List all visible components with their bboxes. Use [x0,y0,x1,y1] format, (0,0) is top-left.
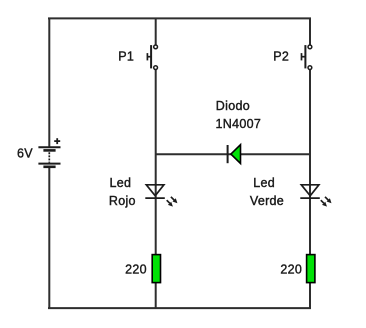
wire middle upper (top rail to P1) [155,18,157,45]
LED D3 (Led Verde) [300,185,328,203]
wire middle main (P1 to resistor R1) [155,70,157,255]
wire bottom rail [48,307,311,309]
wire top rail [48,17,311,19]
svg-text:P2: P2 [273,50,289,64]
LED D2 (Led Rojo) [145,185,174,203]
wire left upper (top rail to battery) [48,18,50,147]
svg-text:220: 220 [280,263,302,277]
wire right lower (resistor R2 to bottom rail) [309,282,311,309]
wire left lower (battery to bottom rail) [48,167,50,309]
diode D1 1N4007 [228,145,241,164]
svg-text:6V: 6V [17,147,33,161]
svg-text:220: 220 [125,263,147,277]
svg-text:Led: Led [110,176,132,190]
svg-text:Led: Led [253,176,275,190]
wire right upper (top rail to P2) [309,18,311,45]
wire diode branch (node middle to node right) [156,153,310,155]
svg-text:Verde: Verde [250,194,284,208]
wire right main (P2 to resistor R2) [309,70,311,255]
wire middle lower (resistor R1 to bottom rail) [155,282,157,309]
svg-text:1N4007: 1N4007 [216,117,262,131]
resistor R2 220 [307,255,315,283]
resistor R1 220 [152,255,160,283]
svg-text:P1: P1 [118,50,134,64]
svg-text:Diodo: Diodo [216,99,250,113]
pushbutton P1 [147,45,157,70]
svg-text:Rojo: Rojo [109,194,136,208]
pushbutton P2 [302,45,312,70]
battery B1 6V [38,138,60,167]
